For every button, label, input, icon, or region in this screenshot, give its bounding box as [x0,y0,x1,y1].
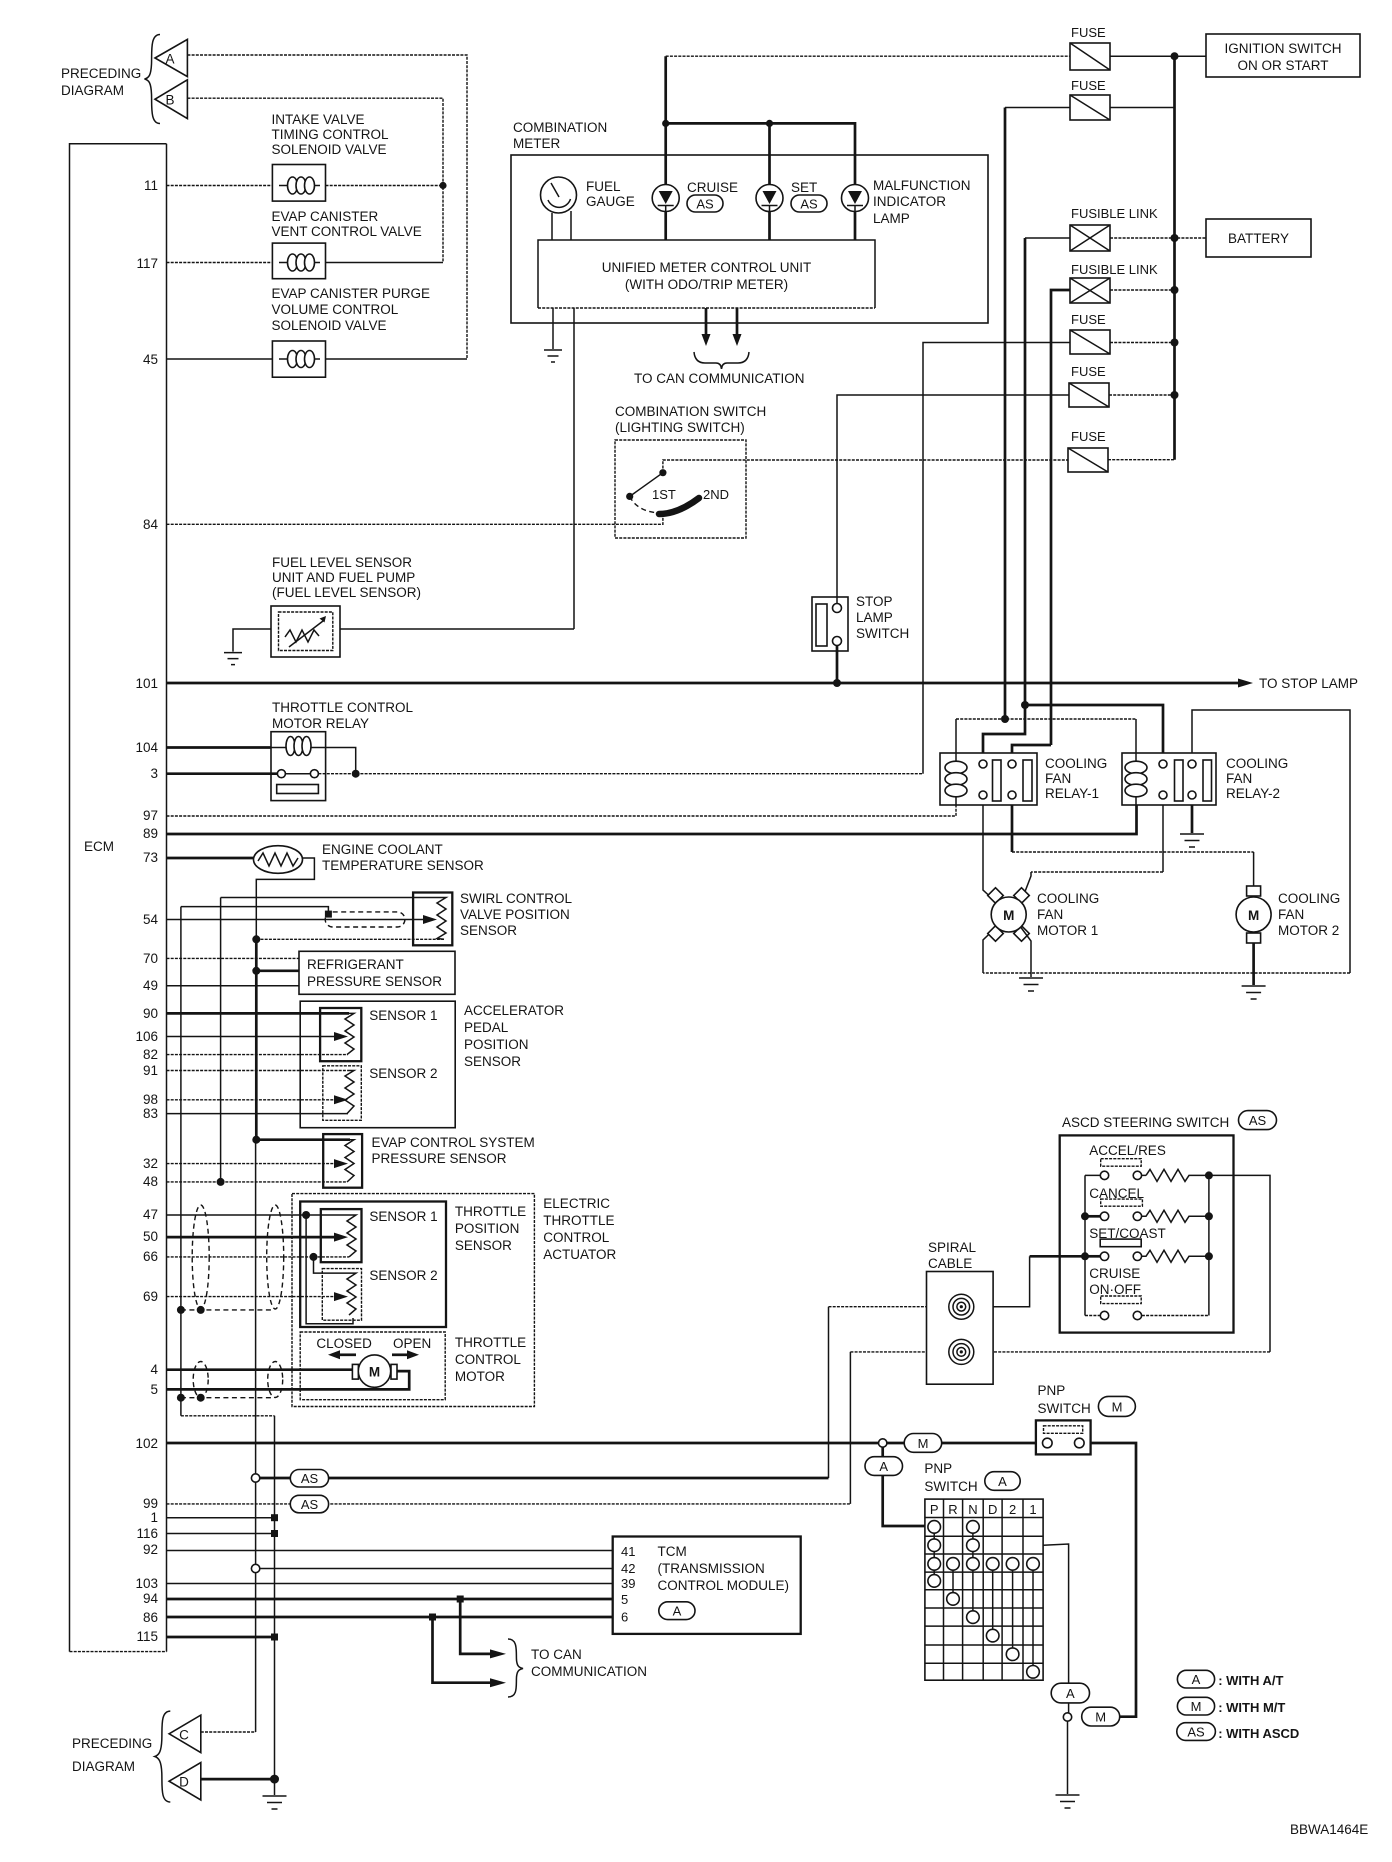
svg-text:M: M [1095,1710,1106,1725]
spiral coil 1 [949,1294,974,1319]
svg-text:116: 116 [136,1526,158,1541]
svg-text:POSITION: POSITION [455,1221,520,1236]
svg-text:69: 69 [143,1289,158,1304]
svg-text:92: 92 [143,1542,158,1557]
wire coil feed to relay1 coil [955,719,957,753]
svg-text:SWIRL CONTROL: SWIRL CONTROL [460,891,572,906]
shield ellipse pair (rows 4-5) [193,1362,208,1398]
A oval (bottom) [1051,1683,1089,1703]
wire ECM pin 89 to relay2 coil [167,805,1137,834]
PNP grid circle P row4 [928,1575,941,1588]
wire D to shield bus junction [201,1778,275,1781]
wire fuse1 to ignition switch [1110,55,1206,57]
junction fusible link1 branch [1021,701,1029,709]
svg-text:VALVE POSITION: VALVE POSITION [460,907,570,922]
svg-text:115: 115 [136,1629,158,1644]
svg-text:M: M [1248,908,1259,923]
svg-text:83: 83 [143,1106,158,1121]
wire row47 to tps sensor2 bottom [306,1215,353,1324]
svg-text:N: N [968,1502,977,1517]
svg-text:SENSOR 1: SENSOR 1 [369,1209,437,1224]
svg-text:B: B [165,93,174,108]
svg-text:D: D [988,1502,997,1517]
wire ECM pin 104 [167,746,272,749]
svg-text:COOLING: COOLING [1278,891,1340,906]
wire motor2 to ground [1252,943,1255,985]
junction cancel left [1081,1212,1089,1220]
wire ECM pin 47 [167,1214,354,1216]
wire ECM pin 116 [167,1533,275,1535]
svg-text:47: 47 [143,1207,158,1222]
wire ECM pin 103 to TCM 39 [167,1583,613,1585]
svg-text:M: M [1112,1400,1123,1415]
svg-text:A: A [673,1604,682,1619]
junction fuse2 coil feed [1001,715,1009,723]
closed arrow [340,1353,356,1356]
svg-text:FAN: FAN [1045,771,1071,786]
shield oval (row 54) [325,912,405,927]
brace under CAN arrows [694,352,749,369]
svg-text:GAUGE: GAUGE [586,194,635,209]
legend A oval [1177,1670,1283,1688]
svg-text:UNIFIED METER CONTROL UNIT: UNIFIED METER CONTROL UNIT [602,260,812,275]
svg-text:THROTTLE: THROTTLE [543,1213,614,1228]
junction row 66 [310,1253,318,1261]
wire C to sensor ground bus [201,1731,256,1733]
junction row 116 shield bus [271,1530,278,1537]
open arrow [392,1353,407,1356]
svg-text:PRECEDING: PRECEDING [61,66,141,81]
svg-text:: WITH ASCD: : WITH ASCD [1218,1726,1299,1741]
svg-text:102: 102 [135,1436,158,1451]
svg-text:AS: AS [1249,1113,1267,1128]
svg-text:48: 48 [143,1174,158,1189]
wire relay2 contact2 to ground [1191,805,1194,833]
svg-text:ACCEL/RES: ACCEL/RES [1089,1143,1166,1158]
svg-text:SOLENOID VALVE: SOLENOID VALVE [272,142,387,157]
fusible link 2 [1070,278,1110,303]
svg-text:6: 6 [621,1610,628,1625]
svg-text:FUSE: FUSE [1071,25,1106,40]
app sensor 1 [320,1008,361,1061]
PNP grid circle 2 row8 [1006,1648,1019,1661]
wire ECM pin 82 [167,1054,349,1056]
cooling fan motor 2 [1236,886,1271,943]
svg-text:MOTOR RELAY: MOTOR RELAY [272,716,369,731]
PNP switch (M) [1036,1420,1091,1454]
wire ECM pin 115 [167,1636,275,1639]
svg-text:PEDAL: PEDAL [464,1020,509,1035]
svg-text:103: 103 [135,1576,158,1591]
svg-text:METER: METER [513,136,561,151]
node A (preceding diagram) [155,39,187,76]
legend AS oval [1177,1723,1300,1741]
svg-text:CRUISE: CRUISE [1089,1266,1140,1281]
malfunction indicator lamp [842,185,869,212]
wire ECM pin 48 [167,1181,348,1183]
cruise indicator lamp [652,185,679,212]
stop lamp switch [812,597,848,651]
svg-text:COOLING: COOLING [1037,891,1099,906]
junction at row 11 on B wire [439,182,446,189]
svg-text:FUEL LEVEL SENSOR: FUEL LEVEL SENSOR [272,555,412,570]
cancel key [1101,1199,1143,1206]
shield bus jog to lower vertical [181,1415,275,1417]
fuse 1 [1070,43,1110,70]
ascd left bus [1084,1175,1086,1315]
sensor ground bus vertical [255,939,258,1139]
throttle control motor relay [271,732,326,801]
wire FL2 to relay1 contact2 [1012,745,1051,753]
svg-text:73: 73 [143,850,158,865]
wire ECM pin 1 [167,1517,275,1519]
junction swirl ground [252,935,260,943]
combination meter box [511,155,988,323]
fuel gauge [541,177,577,213]
svg-text:SENSOR 2: SENSOR 2 [369,1066,437,1081]
svg-text:UNIT AND FUEL PUMP: UNIT AND FUEL PUMP [272,570,415,585]
battery bus vertical [1173,56,1176,460]
svg-text:INTAKE VALVE: INTAKE VALVE [272,112,365,127]
svg-text:MOTOR 1: MOTOR 1 [1037,923,1098,938]
svg-text:98: 98 [143,1092,158,1107]
PNP grid circle 1 row9 [1027,1666,1040,1679]
svg-text:TO STOP LAMP: TO STOP LAMP [1259,676,1358,691]
svg-text:SPIRAL: SPIRAL [928,1240,977,1255]
svg-text:CONTROL: CONTROL [543,1230,609,1245]
wire fusible link2 left down to relay1 [1051,290,1070,745]
swirl control valve feed line [221,897,441,899]
wire ground bus to evap sensor [256,1138,350,1141]
svg-text:82: 82 [143,1047,158,1062]
svg-text:FUSE: FUSE [1071,312,1106,327]
arrow into evap sensor [334,1159,348,1168]
fuse 4 [1069,383,1109,407]
tps sensor 1 [321,1209,362,1262]
wire bus to set lamp [768,123,771,184]
cancel contacts and resistor [1085,1210,1209,1222]
svg-text:66: 66 [143,1249,158,1264]
junction set/coast right [1205,1252,1213,1260]
svg-text:SWITCH: SWITCH [1038,1401,1091,1416]
svg-text:CONTROL: CONTROL [455,1352,521,1367]
open circle junction TCM42 [251,1564,259,1572]
junction set lamp [766,120,773,127]
svg-text:BATTERY: BATTERY [1228,231,1289,246]
wire from B to rows 11/117 [187,98,443,262]
wire fuse3 left down to row 3 [923,343,1070,774]
swirl feed vertical to row 48 [220,898,222,1182]
svg-text:M: M [369,1365,380,1380]
relay coil feed line [956,718,1136,720]
wire A branch to PNP grid [883,1475,925,1526]
svg-text:1: 1 [150,1510,158,1525]
wire ECM pin 4 to motor [167,1368,353,1371]
svg-text:RELAY-2: RELAY-2 [1226,786,1280,801]
wire set/coast to spiral cable [1030,1255,1085,1258]
brace (to CAN communication) [508,1639,523,1697]
wire FL1 to relay1 contact1 [983,705,1025,753]
svg-text:DIAGRAM: DIAGRAM [61,83,124,98]
svg-text:89: 89 [143,826,158,841]
svg-text:SENSOR 2: SENSOR 2 [369,1268,437,1283]
wires fuel gauge to unified unit [552,211,571,240]
wire combination switch to fuse5 [663,460,1068,473]
cooling fan motor 1 [988,888,1030,942]
svg-text:MALFUNCTION: MALFUNCTION [873,178,971,193]
node B (preceding diagram) [155,80,187,119]
ASCD steering switch box [1060,1135,1234,1332]
wire FL1 branch to relay2 contact1 [1025,705,1163,753]
svg-text:M: M [1191,1699,1202,1714]
wire relay2 contact1 to motor1 [1162,805,1164,872]
preceding diagram brace (top) [145,35,161,124]
wire ECM pin 49 [167,985,300,987]
svg-text:42: 42 [621,1561,635,1576]
node C (preceding diagram) [169,1715,201,1753]
svg-text:ECM: ECM [84,839,114,854]
wire TCM 42 to sensor ground bus [259,1568,613,1570]
unified meter control unit box [538,240,875,308]
wire ECM pin 11 [167,185,273,187]
svg-text:94: 94 [143,1591,159,1606]
svg-text:M: M [1003,908,1014,923]
ground (cooling fan motor 2) [1242,986,1266,999]
svg-text:C: C [179,1728,189,1743]
shield drain (rows 4-5) [181,1397,274,1399]
AS oval (ascd title) [1239,1111,1277,1130]
svg-text:ENGINE COOLANT: ENGINE COOLANT [322,842,443,857]
M oval (pnp m title) [1098,1396,1135,1416]
svg-text:COOLING: COOLING [1045,756,1107,771]
PNP grid circles row3 [928,1558,941,1571]
open circle junction (bottom) [1063,1713,1071,1721]
wire ECM pin 73 [167,857,255,860]
ascd right bus [1208,1175,1210,1315]
ground (shield bus) [263,1796,287,1809]
wire ECM pin 117 [167,262,273,264]
ground (fuel level sensor) [224,653,242,665]
svg-text:CLOSED: CLOSED [316,1336,372,1351]
junction row 94 CAN branch [457,1596,464,1603]
svg-text:TO CAN COMMUNICATION: TO CAN COMMUNICATION [634,371,805,386]
svg-text:SET: SET [791,180,817,195]
PNP grid column links [934,1527,1033,1672]
svg-text:106: 106 [135,1029,158,1044]
set/coast key [1100,1239,1141,1247]
combination switch box [615,440,746,538]
intake valve timing control solenoid valve [272,165,325,202]
wire A oval to junction circle [1068,1703,1070,1713]
AS oval (set) [791,195,827,212]
wire fuel level sensor to fuel gauge [340,628,574,630]
svg-text:MOTOR 2: MOTOR 2 [1278,923,1339,938]
svg-text:COOLING: COOLING [1226,756,1288,771]
wire ECM pin 94 to TCM 5 [167,1598,613,1601]
svg-text:VOLUME CONTROL: VOLUME CONTROL [272,302,399,317]
svg-text:(WITH ODO/TRIP METER): (WITH ODO/TRIP METER) [625,277,788,292]
svg-text:FAN: FAN [1278,907,1304,922]
accel/res contacts and resistor [1085,1169,1209,1181]
wire unified unit CAN line 2 [736,308,739,334]
arrow into app sensor1 [334,1032,348,1041]
junction row 47 [302,1211,310,1219]
junction D ground [270,1775,279,1784]
wire fuel level sensor to ground [233,629,271,652]
svg-text:AS: AS [1187,1725,1205,1740]
svg-text:97: 97 [143,808,158,823]
svg-text:FAN: FAN [1037,907,1063,922]
svg-text:1ST: 1ST [652,487,676,502]
wire fusible link1 left down to relay junction [1025,237,1070,239]
arrow to stop lamp [1238,679,1253,688]
svg-text:ON OR START: ON OR START [1237,58,1328,73]
svg-text:THROTTLE: THROTTLE [455,1335,526,1350]
svg-text:REFRIGERANT: REFRIGERANT [307,957,404,972]
wire ECM pin 50 [167,1236,335,1239]
wire ECM pin 86 to TCM 6 [167,1616,613,1619]
ground (cooling fan motor 1) [1019,978,1043,991]
svg-text:THROTTLE CONTROL: THROTTLE CONTROL [272,700,413,715]
wire relay coil to row 3 junction [326,748,356,774]
shield ellipse pair (rows 47-69) [192,1205,209,1309]
svg-text:AS: AS [301,1497,319,1512]
wire ECM pin 69 [167,1296,335,1298]
svg-text:2ND: 2ND [703,487,729,502]
junction fusible link2 bus [1171,286,1179,294]
wire cruise lamp to unified unit [664,212,667,241]
svg-text:104: 104 [135,740,158,755]
wire row94 to CAN arrow [460,1599,490,1654]
wire ECT return to sensor ground bus [256,858,314,939]
svg-text:41: 41 [621,1544,635,1559]
wire fuse3 right to bus [1110,342,1175,344]
ASCD branch row (no pin) [259,1477,829,1480]
wire row66 to tps sensor2 top [314,1257,353,1273]
svg-text:PRESSURE SENSOR: PRESSURE SENSOR [372,1151,507,1166]
svg-text:COMBINATION: COMBINATION [513,120,607,135]
evap canister vent control valve [272,243,325,279]
fuse 5 [1068,448,1108,472]
svg-text:TO CAN: TO CAN [531,1647,582,1662]
wire junction to ground [1067,1721,1069,1794]
wire fusible link2 right to bus [1110,289,1175,291]
evap control system pressure sensor [323,1134,362,1188]
wire unified unit to ground [552,308,554,349]
wire fuse1 to combination meter [666,55,1070,57]
svg-text:90: 90 [143,1006,158,1021]
svg-text:PNP: PNP [924,1461,952,1476]
wire AS branch up to spiral cable [828,1307,830,1478]
svg-text:SENSOR: SENSOR [460,923,517,938]
wire relay2 contact2 to motor1 lower [1192,710,1350,973]
PNP grid circle D row7 [986,1629,999,1642]
wire ECM pin 97 to relay1 coil [167,805,957,816]
wire ECM pin 3 [167,772,278,775]
set indicator lamp [756,185,783,212]
wire ECM pin 106 [167,1036,335,1038]
svg-text:DIAGRAM: DIAGRAM [72,1759,135,1774]
svg-text:3: 3 [150,766,158,781]
svg-text:4: 4 [150,1362,158,1377]
lamp supply bus [666,123,855,184]
throttle control motor [352,1355,397,1387]
svg-text:MOTOR: MOTOR [455,1369,505,1384]
wire solenoid 11 to junction [326,185,444,187]
junction row 115 shield bus [271,1634,278,1641]
svg-text:(TRANSMISSION: (TRANSMISSION [658,1561,765,1576]
svg-text:ASCD STEERING SWITCH: ASCD STEERING SWITCH [1062,1115,1229,1130]
wire from A to row 45 [187,55,467,359]
arrow into tps sensor2 [334,1292,348,1301]
svg-text:STOP: STOP [856,594,893,609]
svg-text:39: 39 [621,1576,635,1591]
svg-text:ON·OFF: ON·OFF [1089,1282,1141,1297]
svg-text:117: 117 [136,256,158,271]
junction row 1 shield bus [271,1514,278,1521]
ground (combination meter) [544,350,562,362]
PNP grid circles row1 [928,1521,941,1534]
wire unified unit CAN line 1 [705,308,708,334]
svg-text:99: 99 [143,1496,158,1511]
PNP grid circle N row6 [967,1611,980,1624]
junction refrigerant feed [252,967,260,975]
app sensor 2 [323,1066,362,1121]
svg-text:IGNITION SWITCH: IGNITION SWITCH [1225,41,1342,56]
fuse 3 [1070,330,1110,354]
svg-text:PNP: PNP [1038,1383,1066,1398]
wire ECM pin 102 (PNP row) [167,1442,1037,1445]
wire ECM pin 5 to motor [167,1371,410,1389]
spiral coil 2 [949,1339,974,1364]
junction row101 stop lamp [833,679,841,687]
svg-text:FUSE: FUSE [1071,78,1106,93]
svg-text:AS: AS [696,197,714,212]
junction cruise lamp [662,120,669,127]
tps sensor 2 [322,1269,361,1321]
svg-text:P: P [930,1502,939,1517]
battery box [1206,219,1311,257]
wire fuse1 feed to lamp bus [664,56,667,123]
wire fuse4 right to bus [1109,394,1175,396]
junction set/coast left [1081,1252,1089,1260]
cruise on-off contacts [1085,1311,1209,1319]
svg-text:A: A [1192,1672,1201,1687]
swirl control valve position sensor [413,893,452,946]
svg-text:91: 91 [143,1063,158,1078]
AS oval (cruise) [687,195,723,212]
svg-text:VENT CONTROL VALVE: VENT CONTROL VALVE [272,224,422,239]
wire coil feed to relay2 coil [1135,719,1137,753]
svg-text:SOLENOID VALVE: SOLENOID VALVE [272,318,387,333]
svg-text:EVAP CONTROL SYSTEM: EVAP CONTROL SYSTEM [372,1135,535,1150]
svg-text:CONTROL MODULE): CONTROL MODULE) [658,1578,790,1593]
svg-text:1: 1 [1029,1502,1036,1517]
svg-text:: WITH A/T: : WITH A/T [1218,1673,1283,1688]
svg-text:COMMUNICATION: COMMUNICATION [531,1664,647,1679]
ignition switch box [1206,34,1360,77]
svg-text:AS: AS [800,197,818,212]
svg-text:A: A [998,1474,1007,1489]
M oval (bottom) [1082,1707,1120,1726]
wire relay1 contact2 to motor2 [1011,805,1014,852]
junction row 3 [352,770,360,778]
svg-text:86: 86 [143,1610,158,1625]
wire ECM pin 90 [167,1012,350,1015]
junction fuse4 bus [1171,391,1179,399]
svg-text:FUSIBLE LINK: FUSIBLE LINK [1071,262,1158,277]
wire bus to cruise lamp [664,123,667,184]
